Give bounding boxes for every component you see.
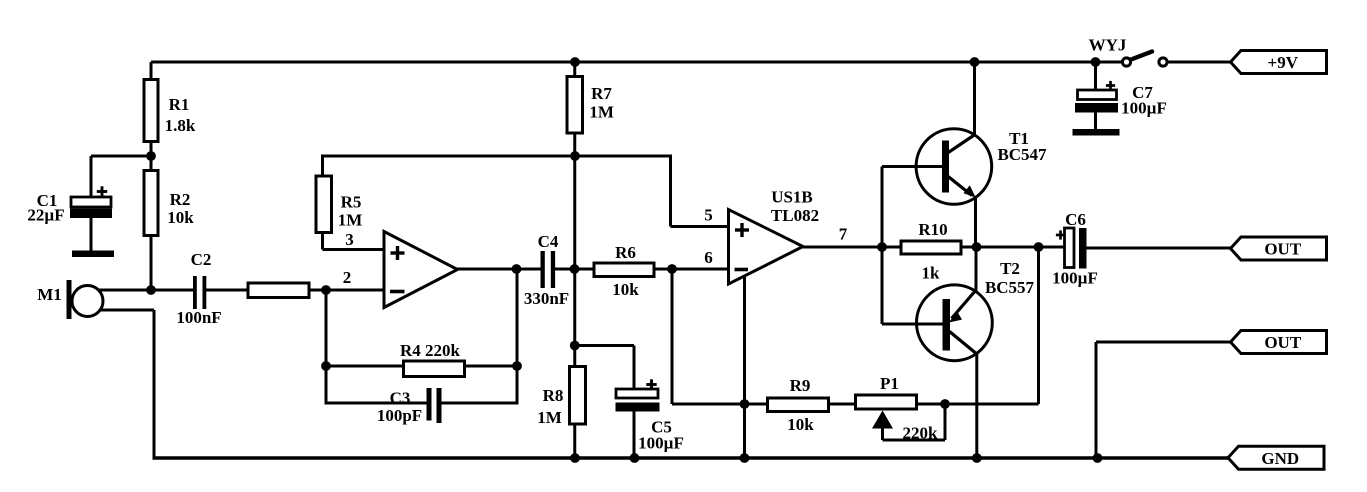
svg-text:100µF: 100µF: [638, 434, 684, 453]
svg-text:R2: R2: [170, 190, 191, 209]
svg-text:R5: R5: [341, 193, 362, 212]
svg-text:3: 3: [345, 230, 354, 249]
svg-text:1M: 1M: [589, 103, 614, 122]
svg-text:100µF: 100µF: [1121, 99, 1167, 118]
svg-text:1.8k: 1.8k: [165, 116, 196, 135]
svg-text:330nF: 330nF: [524, 289, 569, 308]
svg-text:5: 5: [704, 206, 713, 225]
svg-text:C4: C4: [538, 232, 559, 251]
svg-text:C3: C3: [390, 389, 411, 408]
svg-text:1k: 1k: [922, 264, 941, 283]
svg-text:10k: 10k: [612, 280, 639, 299]
svg-text:OUT: OUT: [1264, 333, 1302, 352]
svg-text:100nF: 100nF: [176, 308, 221, 327]
svg-text:100µF: 100µF: [1052, 269, 1098, 288]
svg-text:US1B: US1B: [771, 188, 813, 207]
svg-text:GND: GND: [1261, 449, 1299, 468]
svg-text:M1: M1: [37, 285, 62, 304]
svg-text:220k: 220k: [903, 424, 939, 443]
svg-text:R9: R9: [790, 376, 811, 395]
svg-text:WYJ: WYJ: [1089, 36, 1127, 55]
svg-text:BC557: BC557: [985, 278, 1035, 297]
svg-text:R8: R8: [543, 386, 564, 405]
svg-text:1M: 1M: [537, 408, 562, 427]
svg-text:+9V: +9V: [1268, 53, 1299, 72]
svg-text:R7: R7: [591, 84, 612, 103]
svg-text:6: 6: [704, 248, 713, 267]
svg-text:7: 7: [839, 225, 848, 244]
svg-text:TL082: TL082: [771, 206, 819, 225]
svg-text:2: 2: [343, 268, 352, 287]
svg-text:22µF: 22µF: [27, 206, 64, 225]
svg-text:10k: 10k: [787, 415, 814, 434]
svg-text:C2: C2: [191, 250, 212, 269]
svg-text:R4 220k: R4 220k: [400, 341, 461, 360]
svg-text:10k: 10k: [167, 208, 194, 227]
svg-text:OUT: OUT: [1264, 240, 1302, 259]
svg-text:P1: P1: [880, 374, 899, 393]
svg-text:T2: T2: [1000, 259, 1020, 278]
svg-text:100pF: 100pF: [377, 406, 422, 425]
svg-text:C6: C6: [1065, 210, 1086, 229]
svg-text:1M: 1M: [338, 211, 363, 230]
svg-text:R6: R6: [615, 243, 636, 262]
svg-text:R10: R10: [918, 220, 947, 239]
svg-text:R1: R1: [169, 95, 190, 114]
svg-text:BC547: BC547: [997, 145, 1047, 164]
